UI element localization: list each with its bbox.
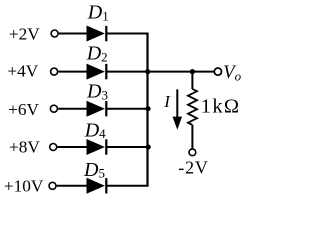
terminal Vo bbox=[214, 68, 221, 75]
wire resistor to -2V terminal bbox=[191, 125, 193, 149]
svg-text:+10V: +10V bbox=[4, 176, 44, 195]
current arrow I bbox=[173, 89, 183, 129]
wire diode D1 to bus bbox=[107, 33, 149, 35]
junction resistor tap bbox=[190, 69, 195, 74]
wire common bus bbox=[146, 34, 148, 186]
wire input row 4 bbox=[57, 146, 87, 148]
svg-text:-2V: -2V bbox=[178, 158, 208, 178]
wire input row 2 bbox=[58, 71, 87, 73]
terminal -2V bbox=[189, 149, 196, 156]
diode D1 bbox=[87, 26, 107, 42]
diode D2 bbox=[87, 64, 107, 80]
terminal +4V bbox=[51, 68, 58, 75]
svg-text:+4V: +4V bbox=[7, 61, 38, 80]
junction bus row 2 bbox=[145, 69, 150, 74]
wire input row 3 bbox=[58, 108, 87, 110]
wire diode D4 to bus bbox=[107, 146, 149, 148]
svg-text:+6V: +6V bbox=[8, 100, 39, 119]
diode D5 bbox=[87, 178, 107, 194]
wire output bbox=[148, 71, 215, 73]
svg-text:+8V: +8V bbox=[9, 137, 40, 156]
wire diode D2 to bus bbox=[107, 71, 149, 73]
terminal +2V bbox=[51, 30, 58, 37]
wire bus tap to resistor bbox=[191, 72, 193, 90]
resistor 1k ohm bbox=[188, 89, 197, 125]
wire diode D3 to bus bbox=[107, 108, 149, 110]
wire input row 1 bbox=[59, 33, 88, 35]
junction bus row 3 bbox=[145, 106, 150, 111]
terminal +8V bbox=[50, 144, 57, 151]
terminal +6V bbox=[50, 105, 57, 112]
diode D3 bbox=[87, 101, 107, 117]
svg-text:+2V: +2V bbox=[9, 24, 40, 43]
wire input row 5 bbox=[57, 185, 88, 187]
junction bus row 4 bbox=[146, 144, 151, 149]
wire diode D5 to bus bbox=[107, 185, 149, 187]
diode D4 bbox=[87, 139, 107, 155]
svg-text:1kΩ: 1kΩ bbox=[201, 96, 241, 118]
terminal +10V bbox=[49, 182, 56, 189]
